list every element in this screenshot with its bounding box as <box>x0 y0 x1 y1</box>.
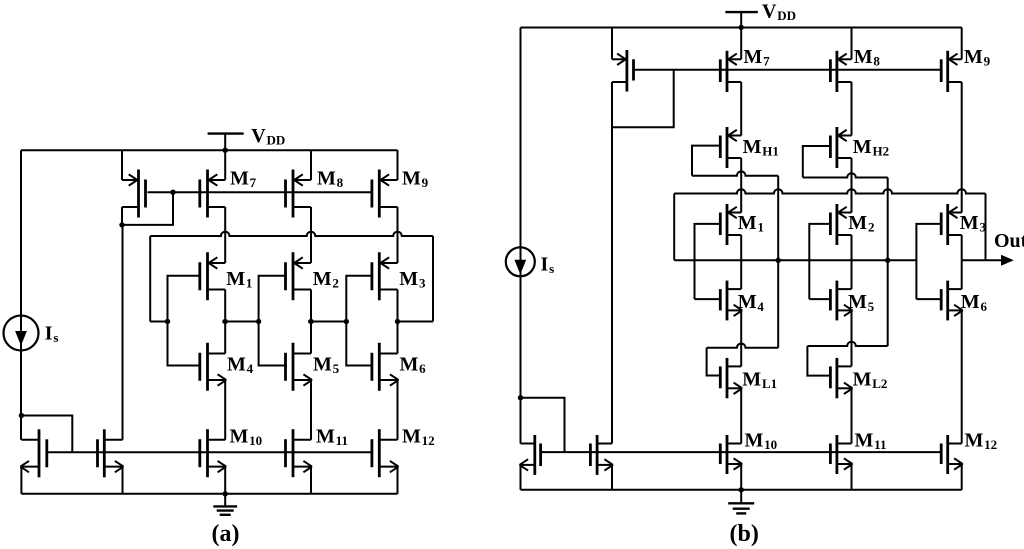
wire MH2 drain to M2 source <box>851 158 853 213</box>
label M9 (b) <box>964 46 991 69</box>
svg-text:M: M <box>230 168 249 190</box>
wire crossover rail left drop (b) <box>673 194 675 261</box>
label M2 <box>313 268 339 291</box>
svg-text:V: V <box>762 0 777 22</box>
transistor M6 <box>372 343 399 391</box>
label M3 <box>399 268 426 291</box>
label M7 (b) <box>743 46 770 69</box>
wire bias drain down (b) <box>611 82 613 444</box>
svg-text:M: M <box>743 136 762 158</box>
svg-text:M: M <box>317 168 336 190</box>
wire M8 source <box>310 150 312 180</box>
wire node stub B (a) <box>222 321 261 323</box>
label M10 (b) <box>745 430 778 453</box>
transistor ML2 <box>830 358 852 398</box>
svg-text:M: M <box>745 430 764 452</box>
wire ML2 source to M11 drain <box>851 388 853 443</box>
wire M6 gate <box>346 322 372 366</box>
svg-text:M: M <box>960 212 979 234</box>
label M2 (b) <box>848 212 874 235</box>
node MB1 gate junction <box>170 190 175 195</box>
label M9 <box>402 168 429 191</box>
svg-text:12: 12 <box>984 437 997 452</box>
wire node stub D (a) <box>396 321 434 323</box>
node MH2 gate tie <box>885 258 890 263</box>
svg-text:11: 11 <box>874 437 886 452</box>
wire M3 gate (b) <box>916 224 941 299</box>
wire M10 source to ground rail <box>224 467 226 494</box>
svg-text:M: M <box>402 168 421 190</box>
svg-text:Out: Out <box>994 230 1024 252</box>
transistor M5 (b) <box>830 281 852 321</box>
transistor M9 <box>372 170 398 218</box>
wire MH1 gate tie vertical <box>777 176 779 348</box>
transistor MH2 <box>830 127 851 168</box>
wire M6 drain to M12 drain <box>397 380 399 440</box>
current source Is <box>506 247 535 276</box>
wire MB1 drain down <box>121 207 123 225</box>
ground <box>728 490 754 514</box>
wire M1 drain to M4 source <box>224 290 226 354</box>
svg-text:5: 5 <box>868 299 875 314</box>
svg-text:M: M <box>313 268 332 290</box>
node VDD rail junction (a) <box>223 148 228 153</box>
svg-text:s: s <box>549 261 554 276</box>
wire MH2 gate loop <box>803 146 831 178</box>
wire M4 drain to M10 drain <box>224 380 226 440</box>
transistor MB3 bias NMOS (b) <box>590 435 613 475</box>
label M8 <box>317 168 344 191</box>
wire ML1 source to M10 drain <box>740 388 742 443</box>
transistor MH1 <box>720 127 741 168</box>
node ground (a) <box>223 491 228 496</box>
wire left Is branch upper (a) <box>20 150 22 440</box>
svg-text:M: M <box>316 426 335 448</box>
label M7 <box>230 168 257 191</box>
label M5 <box>313 353 340 376</box>
wire crossover rail (b) <box>674 189 985 193</box>
svg-text:8: 8 <box>337 175 344 190</box>
transistor M1 (b) <box>720 204 741 245</box>
svg-text:4: 4 <box>757 299 764 314</box>
wire M5 drain to ML2 drain <box>851 310 853 366</box>
transistor M10 <box>200 429 226 477</box>
wire gate rail bottom row (b) <box>541 451 942 453</box>
svg-text:L2: L2 <box>872 376 887 391</box>
wire M4 gate <box>168 322 200 366</box>
label M8 (b) <box>854 46 881 69</box>
svg-text:1: 1 <box>246 276 253 291</box>
svg-text:s: s <box>53 330 58 345</box>
node M3 drain <box>395 319 400 324</box>
wire VDD rail (b) <box>521 27 962 29</box>
wire M3 drain to M6 source <box>397 290 399 354</box>
svg-text:6: 6 <box>419 361 426 376</box>
svg-text:L1: L1 <box>762 376 777 391</box>
svg-text:M: M <box>738 212 757 234</box>
wire mid rail (b) <box>674 259 916 261</box>
label M11 (b) <box>855 430 887 453</box>
transistor M4 (b) <box>720 281 742 321</box>
svg-text:M: M <box>402 426 421 448</box>
svg-text:(a): (a) <box>212 521 240 547</box>
svg-text:M: M <box>853 136 872 158</box>
svg-text:8: 8 <box>873 54 880 69</box>
node MH1 gate tie <box>776 258 781 263</box>
wire M1 gate (b) <box>695 224 721 299</box>
transistor M11 (b) <box>830 435 852 474</box>
node M2 drain <box>308 319 313 324</box>
label VDD (a) <box>251 125 285 148</box>
wire MH1 drain to M1 source <box>740 158 742 213</box>
svg-text:7: 7 <box>250 175 257 190</box>
transistor M9 (b) <box>941 51 962 92</box>
transistor M4 <box>200 343 226 391</box>
wire crossover rail right drop <box>432 236 434 322</box>
svg-text:M: M <box>961 291 980 313</box>
wire M1 gate <box>168 276 200 322</box>
svg-text:M: M <box>227 353 246 375</box>
wire MB3 source down (b) <box>611 465 613 490</box>
power symbol VDD (b) <box>725 12 757 27</box>
node M2/M5 gates <box>256 319 261 324</box>
transistor M3 <box>372 252 398 300</box>
transistor M11 <box>286 429 313 477</box>
wire M12 source to ground rail (b) <box>961 464 963 490</box>
wire M8 drain to MH2 source <box>851 82 853 136</box>
node M1/M4 gates <box>165 319 170 324</box>
svg-text:11: 11 <box>336 433 348 448</box>
transistor M2 <box>286 252 312 300</box>
transistor M3 (b) <box>941 204 962 245</box>
svg-text:(b): (b) <box>730 521 759 547</box>
label M12 <box>402 426 435 449</box>
wire MB1 source to rail <box>121 150 123 180</box>
wire M3 gate <box>346 276 372 322</box>
svg-text:2: 2 <box>868 220 875 235</box>
wire M9 drain to M3 source <box>397 207 399 263</box>
label ML2 <box>853 368 888 391</box>
wire crossover rail right drop (b) <box>985 194 987 261</box>
label VDD (b) <box>762 0 796 23</box>
transistor M1 <box>200 252 225 300</box>
wire M7 source <box>224 150 226 180</box>
output arrow <box>1001 255 1014 266</box>
wire ML1 gate loop <box>707 348 721 376</box>
wire M11 source to ground rail <box>310 467 312 494</box>
node M3/M6 gates <box>344 319 349 324</box>
wire M1 drain to M4 drain <box>740 235 742 289</box>
svg-text:H2: H2 <box>872 144 889 159</box>
node ground (b) <box>739 487 744 492</box>
current source Is <box>4 316 39 351</box>
svg-text:M: M <box>964 46 983 68</box>
transistor MB1 bias PMOS (a) <box>122 170 146 218</box>
node MB2 diode <box>19 413 24 418</box>
label M11 <box>316 426 348 449</box>
label M4 <box>227 353 254 376</box>
wire left Is branch (b) <box>520 28 522 444</box>
wire MB1 diode connection <box>122 192 173 225</box>
wire M10 source to ground rail (b) <box>740 464 742 490</box>
transistor M7 (b) <box>720 51 741 92</box>
svg-text:M: M <box>855 430 874 452</box>
transistor M12 <box>372 429 399 477</box>
transistor M12 (b) <box>941 435 963 474</box>
wire MH1 gate loop <box>692 146 720 176</box>
transistor M8 <box>286 170 312 218</box>
node VDD rail junction (b) <box>739 25 744 30</box>
transistor M7 <box>200 170 225 218</box>
svg-text:H1: H1 <box>762 144 779 159</box>
svg-text:2: 2 <box>332 276 339 291</box>
wire M9 source <box>397 150 399 180</box>
wire MB2 diode connection (b) <box>521 398 565 452</box>
ground <box>213 494 237 515</box>
svg-text:9: 9 <box>984 54 991 69</box>
transistor M6 (b) <box>941 281 963 321</box>
node M1 drain <box>223 319 228 324</box>
wire MH2 gate tie vertical <box>887 178 889 347</box>
wire M4 gate (b) <box>695 298 721 300</box>
label M3 (b) <box>960 212 987 235</box>
svg-text:7: 7 <box>763 54 770 69</box>
wire M2 drain to M5 source <box>310 290 312 354</box>
wire VDD rail (a) <box>21 149 398 151</box>
wire MB2 diode connection <box>21 416 72 453</box>
svg-text:M: M <box>313 353 332 375</box>
node MB1 drain <box>119 222 124 227</box>
wire M2 gate <box>259 276 286 322</box>
transistor M5 <box>286 343 313 391</box>
label M6 <box>400 353 427 376</box>
wire bias source to rail (b) <box>611 28 613 60</box>
label MH2 <box>853 136 889 159</box>
transistor MB2 bias NMOS (a) <box>20 429 46 477</box>
svg-text:M: M <box>848 212 867 234</box>
svg-text:M: M <box>854 46 873 68</box>
svg-text:M: M <box>848 291 867 313</box>
label M6 (b) <box>961 291 988 314</box>
svg-text:6: 6 <box>980 299 987 314</box>
wire MB3 source down <box>122 467 124 494</box>
label MH1 <box>743 136 779 159</box>
wire Out to M6 drain <box>961 260 963 289</box>
wire M5 gate <box>259 322 286 366</box>
svg-text:DD: DD <box>777 8 796 23</box>
wire M2 gate (b) <box>809 224 830 299</box>
wire ML2 gate loop <box>807 346 830 376</box>
wire M5 gate (b) <box>809 298 830 300</box>
transistor MB2 bias NMOS (b) <box>520 435 541 475</box>
wire crossover rail (a) <box>150 232 433 236</box>
wire M4 drain to ML1 drain <box>740 310 742 366</box>
svg-text:M: M <box>742 368 761 390</box>
wire MB2 source down <box>20 467 22 494</box>
wire M12 source to ground rail <box>397 467 399 494</box>
wire M2 drain to M5 drain <box>851 235 853 289</box>
wire M6 gate (b) <box>916 298 941 300</box>
node MB2 diode (b) <box>518 395 523 400</box>
svg-text:M: M <box>965 430 984 452</box>
svg-text:M: M <box>230 426 249 448</box>
wire M9 source (b) <box>961 28 963 60</box>
wire MB1 drain to MB3 drain <box>122 225 124 440</box>
svg-text:M: M <box>400 353 419 375</box>
svg-text:M: M <box>738 291 757 313</box>
wire M7 drain to M1 source <box>224 207 226 263</box>
svg-text:3: 3 <box>979 220 986 235</box>
wire M9 drain to M3 source <box>961 82 963 213</box>
wire ground rail (a) <box>21 493 397 495</box>
svg-text:9: 9 <box>422 175 429 190</box>
transistor ML1 <box>720 358 742 398</box>
wire output line <box>962 259 1003 261</box>
wire M7 source (b) <box>740 28 742 60</box>
wire MB2 source down (b) <box>520 465 522 490</box>
svg-text:1: 1 <box>757 220 764 235</box>
label M12 (b) <box>965 430 998 453</box>
svg-text:I: I <box>45 323 53 345</box>
wire M8 source (b) <box>851 28 853 60</box>
wire crossover rail left drop <box>149 236 151 322</box>
svg-text:12: 12 <box>422 433 435 448</box>
label M1 <box>226 268 252 291</box>
wire bias diode connection (b) <box>612 70 674 127</box>
transistor M2 (b) <box>830 204 851 245</box>
wire M11 source to ground rail (b) <box>851 464 853 490</box>
label Is (b) <box>541 254 555 277</box>
svg-text:M: M <box>743 46 762 68</box>
transistor MB1 bias PMOS (b) <box>612 50 634 92</box>
svg-text:M: M <box>399 268 418 290</box>
svg-text:DD: DD <box>267 133 286 148</box>
svg-text:M: M <box>226 268 245 290</box>
wire node stub A (a) <box>150 321 167 323</box>
wire gate rail M7 M8 M9 (a) <box>148 191 372 193</box>
label ML1 <box>742 368 777 391</box>
label M1 (b) <box>738 212 764 235</box>
svg-text:M: M <box>853 368 872 390</box>
label M10 <box>230 426 263 449</box>
transistor MB3 bias NMOS (a) <box>98 429 124 477</box>
power symbol VDD (a) <box>208 134 244 151</box>
label M5 (b) <box>848 291 875 314</box>
wire M7 drain to MH1 source <box>740 82 742 136</box>
svg-text:V: V <box>251 125 266 147</box>
wire gate rail M7 M8 M9 (b) <box>634 69 942 71</box>
svg-text:4: 4 <box>247 361 254 376</box>
svg-text:I: I <box>541 254 549 276</box>
wire M5 drain to M11 drain <box>310 380 312 440</box>
label M4 (b) <box>738 291 765 314</box>
svg-text:3: 3 <box>419 276 426 291</box>
wire node stub C (a) <box>308 321 349 323</box>
wire gate rail bottom row (a) <box>47 451 372 453</box>
svg-text:10: 10 <box>764 437 777 452</box>
wire ground rail (b) <box>521 489 962 491</box>
wire M6 drain to M12 drain <box>961 310 963 443</box>
svg-text:10: 10 <box>249 433 262 448</box>
wire M3 drain to Out <box>961 235 963 260</box>
transistor M8 (b) <box>830 51 851 92</box>
label Is (a) <box>45 323 59 346</box>
svg-text:5: 5 <box>333 361 340 376</box>
transistor M10 (b) <box>720 435 742 474</box>
wire M8 drain to M2 source <box>310 207 312 263</box>
